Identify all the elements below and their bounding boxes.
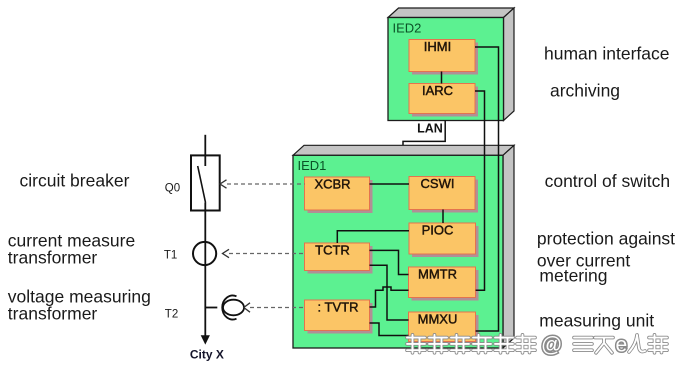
feeder line (top)	[204, 135, 206, 166]
circuit breaker Q0 box	[191, 155, 220, 210]
svg-text:archiving: archiving	[550, 81, 620, 101]
wire CSWI-PIOC	[442, 210, 444, 224]
svg-text:IED2: IED2	[393, 21, 422, 36]
TCTR box	[305, 243, 373, 274]
arrowhead at Q0	[220, 180, 227, 188]
svg-text:metering: metering	[539, 266, 607, 286]
feeder line (middle/bottom)	[204, 203, 206, 337]
feeder arrow to City X	[201, 335, 210, 344]
XCBR box	[305, 177, 373, 214]
IED2 enclosure (3D green box)	[388, 8, 514, 121]
MMXU box	[409, 312, 479, 345]
svg-text:LAN: LAN	[417, 122, 443, 136]
watermark (simulated CJK glyph strokes)	[407, 335, 535, 353]
IARC box U-IARC	[409, 83, 478, 117]
arrowhead at T2	[244, 303, 250, 312]
svg-text:CSWI: CSWI	[421, 176, 455, 191]
svg-text:measuring unit: measuring unit	[539, 311, 654, 331]
svg-text:XCBR: XCBR	[314, 177, 350, 192]
breaker blade	[198, 166, 206, 203]
PIOC box	[409, 223, 479, 258]
svg-text:transformer: transformer	[8, 304, 98, 324]
TVTR box	[305, 300, 373, 334]
wire TVTR-MMXU (bottom)	[370, 323, 409, 336]
svg-text:e: e	[616, 334, 628, 357]
IHMI box U-IHMI	[409, 39, 478, 75]
svg-text:Q0: Q0	[165, 183, 180, 195]
svg-text:circuit breaker: circuit breaker	[20, 171, 130, 191]
svg-text:T1: T1	[164, 249, 177, 261]
svg-text:MMXU: MMXU	[418, 312, 458, 327]
svg-text:MMTR: MMTR	[418, 267, 457, 282]
current transformer T1 circle	[193, 242, 216, 265]
svg-text:IED1: IED1	[298, 158, 327, 173]
svg-text:T2: T2	[165, 309, 178, 321]
MMTR box	[409, 267, 479, 301]
dashed wire TCTR to T1	[229, 253, 305, 255]
wire TCTR-MMXU	[370, 265, 409, 320]
CSWI box	[409, 176, 478, 213]
wire IHMI-IARC	[441, 72, 443, 84]
svg-text:IARC: IARC	[422, 83, 453, 98]
svg-text:human interface: human interface	[544, 43, 670, 63]
svg-text:PIOC: PIOC	[422, 223, 454, 238]
voltage transformer T2 left circle	[222, 296, 236, 320]
dashed wire XCBR to Q0	[227, 183, 305, 185]
svg-text:@: @	[541, 334, 562, 357]
wire PIOC-TCTR	[337, 231, 409, 243]
IED1 enclosure (3D green box)	[293, 145, 514, 348]
svg-text:: TVTR: : TVTR	[318, 300, 359, 315]
voltage transformer T2 tap	[205, 307, 217, 309]
watermark e	[616, 334, 628, 357]
svg-text:transformer: transformer	[8, 248, 98, 268]
svg-text:protection against: protection against	[537, 228, 675, 248]
wire IARC-MMTR (vertical bus 1)	[475, 91, 485, 290]
svg-text:IHMI: IHMI	[424, 39, 451, 54]
voltage transformer T2 right circle	[223, 300, 244, 316]
svg-text:TCTR: TCTR	[315, 243, 350, 258]
svg-text:City X: City X	[190, 348, 224, 362]
dashed wire TVTR to T2	[250, 307, 305, 309]
svg-text:control of switch: control of switch	[545, 171, 670, 191]
wire TCTR-MMTR	[370, 250, 409, 274]
LAN wire (IED2 to IED1)	[403, 121, 445, 151]
wire IHMI-MMXU (vertical bus 2)	[475, 47, 499, 331]
arrowhead at T1	[223, 249, 230, 257]
wire XCBR-CSWI	[370, 183, 410, 185]
wire TVTR-MMTR with jump over crossing	[370, 287, 409, 307]
watermark @	[541, 334, 562, 357]
